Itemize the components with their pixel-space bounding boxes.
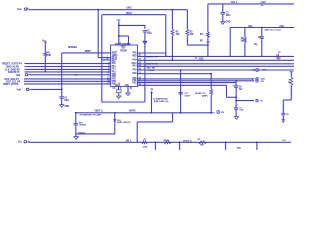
svg-text:R8 1K: R8 1K: [164, 140, 170, 142]
connector J3 x=151.5: [150, 89, 153, 112]
resistor R1 x=45.3: [44, 43, 47, 72]
label above top-right wire: [231, 0, 266, 4]
wire R6 down: [210, 95, 212, 113]
connector pin y=78.8: [253, 78, 266, 81]
resistor R7 inline: [142, 141, 148, 144]
svg-text:10K: 10K: [176, 34, 180, 36]
capacitor C8 battery: [74, 124, 79, 125]
svg-text:NRST: NRST: [85, 50, 92, 53]
junction (236.1,100.6): [235, 100, 237, 102]
wire net y=27.5: [230, 27, 294, 29]
svg-text:Vdd: Vdd: [17, 88, 22, 91]
svg-text:SW_1: SW_1: [126, 141, 133, 143]
svg-text:10K: 10K: [47, 55, 51, 57]
svg-text:SENSE1: SENSE1: [68, 45, 78, 49]
svg-text:(DNP, 100R, 1%): (DNP, 100R, 1%): [154, 101, 169, 103]
wire vertical x=98.2: [98, 10, 110, 58]
pin numbers U1 right: [138, 55, 141, 86]
junction (211.2,112.8): [210, 112, 212, 114]
label C6: [239, 86, 243, 90]
resistor R4 chain x=207.9: [207, 4, 210, 57]
label R2: [176, 31, 180, 36]
wire C6 to junctions: [235, 87, 237, 107]
label above wire y=27.5: [248, 25, 285, 28]
svg-text:VBAT: VBAT: [126, 12, 133, 15]
wire x=118.8 down: [118, 22, 120, 37]
wire bus y=63.6: [25, 63, 111, 65]
net label RESET_OUT: [2, 62, 22, 66]
junction (261.8,27.5): [261, 27, 263, 29]
power bar x=291.3: [289, 71, 293, 73]
svg-text:TSSOP: TSSOP: [120, 51, 128, 53]
junction (236.1,80.8): [235, 80, 237, 82]
net label SWDIO: [6, 64, 19, 68]
wire U1 bottom pin x=128: [128, 87, 133, 93]
svg-text:VO: VO: [260, 101, 263, 103]
junction (179.6,142.3): [179, 141, 181, 143]
connector pin y=100.7: [256, 99, 264, 102]
label near bottom wire end: [282, 140, 286, 142]
wire below C9: [282, 115, 284, 120]
power flag GND-B y=89.4: [17, 88, 31, 91]
wire row y=66.3: [137, 65, 294, 67]
capacitor C7: [234, 108, 245, 112]
svg-text:(DNP): (DNP): [202, 96, 208, 98]
wire box bottom y=133.9: [76, 133, 115, 135]
ground bottom-left: [74, 134, 79, 139]
label U1 sub: [121, 47, 127, 49]
label net above wire y=9.7: [126, 7, 132, 10]
wire x=61.7 down: [61, 53, 63, 97]
wire bus y=83.9: [24, 83, 111, 85]
wire drop x=225.6: [225, 141, 227, 150]
wire y=25.4 branch: [118, 25, 145, 27]
svg-text:(DNP, close to U1): (DNP, close to U1): [265, 29, 281, 32]
wire x=236.1 down: [235, 81, 237, 86]
label C1: [147, 30, 152, 35]
svg-text:100n: 100n: [226, 15, 231, 17]
red marker U1 bottom: [118, 83, 121, 85]
label below top-right wire: [261, 5, 265, 7]
wire net top-right y=3.9: [208, 3, 294, 5]
label R8: [164, 140, 170, 142]
wire U1 pin to x=61.7: [62, 52, 111, 54]
svg-text:100n: 100n: [147, 33, 152, 35]
wire flag line y=74.8: [29, 74, 111, 76]
wire bus y=66.5: [25, 66, 111, 68]
wire bus y=69.4: [25, 68, 111, 70]
wire bus y=78.9: [24, 78, 111, 80]
label above wire y=112.8: [95, 109, 137, 112]
ground stub on x=144.9: [143, 41, 147, 44]
wire row y=56.4: [138, 55, 295, 57]
label rows right of U1: [146, 55, 158, 72]
junction at (172.4,9.7): [172, 9, 174, 11]
junction (114.9,112.8): [114, 112, 116, 114]
label C2: [226, 12, 231, 17]
junction (151.3,112.8): [150, 112, 152, 114]
net label SCL: [6, 79, 21, 83]
junction (236.1,97.3): [235, 96, 237, 98]
wire stub to U1 pin 8: [102, 59, 111, 61]
wire y=45.1 join: [187, 44, 208, 46]
wire vertical x=101.8 (left edge): [101, 15, 103, 102]
label U1 sub2: [120, 51, 128, 53]
label below bottom wire: [237, 148, 242, 150]
pin names U1 right inside: [131, 51, 137, 84]
label VSS row: [115, 84, 130, 87]
svg-text:XTAL: XTAL: [279, 25, 285, 28]
label J3: [153, 98, 169, 102]
capacitor C10 marks: [113, 120, 116, 121]
svg-text:VSSA: VSSA: [115, 84, 121, 87]
net label SWCLK: [5, 67, 21, 71]
ground under pin 15: [126, 93, 130, 96]
capacitor C5 inline: [276, 52, 281, 61]
pin numbers U1 left: [107, 61, 110, 84]
wire U1 top pin x=118.8: [118, 36, 120, 45]
svg-text:+3V3: +3V3: [260, 0, 266, 4]
power flag VCC2 x=45.3: [42, 39, 47, 43]
wire row y=60.3: [137, 59, 294, 61]
svg-text:DRDY_INT P5: DRDY_INT P5: [3, 82, 19, 86]
wire corner x=165.8 down: [165, 15, 167, 58]
junction (61.7,89.4): [61, 89, 63, 91]
svg-text:Vcc: Vcc: [17, 7, 22, 11]
label R7: [143, 139, 148, 148]
connector pin right end: [211, 111, 224, 114]
label R1: [47, 52, 51, 57]
label U1 ref below: [113, 88, 117, 90]
capacitor C4 x=61.7: [60, 97, 64, 98]
svg-text:CR2032: CR2032: [79, 125, 87, 127]
svg-text:+3V3: +3V3: [126, 7, 132, 10]
wire drop x=155.2: [154, 142, 156, 150]
resistor R8 inline: [164, 141, 171, 144]
pin number 7: [107, 56, 109, 58]
label on bottom wire: [183, 140, 192, 143]
label C4: [64, 96, 69, 102]
wire to ground x=236.1: [235, 109, 237, 116]
wire drop x=256.9: [256, 141, 258, 150]
label R9: [198, 139, 205, 146]
wire pad to ground: [118, 93, 120, 96]
wire box right x=114.8: [114, 113, 116, 134]
connector J2 pin y=70: [253, 69, 267, 72]
wire bottom edge y=102.0: [102, 101, 145, 103]
svg-text:GND: GND: [64, 106, 69, 108]
pin names U1 left inside: [112, 53, 118, 86]
power flag bottom VCC: [18, 140, 29, 143]
capacitor C3 x=261.8: [260, 28, 264, 58]
wire net VCC y=9.7: [29, 9, 188, 11]
junction (155.2,142.3): [155, 141, 157, 143]
wire row y=63.8: [137, 63, 294, 65]
power flag VCC (top-left): [17, 7, 28, 11]
svg-text:USART1_TX: USART1_TX: [146, 55, 158, 58]
capacitor C2 chain x=222.8: [221, 4, 225, 20]
wire row y=78.9 right: [137, 78, 254, 80]
wire x=144.9 cap down: [144, 25, 146, 102]
wire below C4: [61, 98, 63, 104]
label C10: [117, 120, 131, 124]
ground below U1: [117, 96, 121, 99]
label NRST above: [85, 50, 92, 53]
svg-text:3V3_F: 3V3_F: [231, 1, 238, 4]
junction (180.6,112.8): [180, 112, 182, 114]
wire jog to U1 top pin: [118, 35, 129, 45]
capacitor C9: [281, 113, 289, 115]
svg-text:10K: 10K: [190, 34, 194, 36]
label net above wire y=14.7: [126, 12, 133, 15]
capacitor C11: [178, 93, 190, 98]
ground x=236.1: [234, 117, 238, 120]
label above bottom wire: [126, 141, 133, 143]
label below wire y=27.5: [265, 29, 281, 32]
wire U1 bottom pin x=118.5: [119, 87, 123, 91]
net label BOOT: [8, 70, 20, 74]
label R5: [240, 38, 244, 43]
label inside box: [80, 114, 102, 117]
label R6: [195, 92, 208, 97]
wire vertical x=180.6: [180, 69, 182, 113]
label C3: [254, 37, 261, 46]
wire bus y=81.3: [24, 80, 111, 82]
capacitor C1: [143, 31, 147, 32]
svg-text:OSC: OSC: [248, 26, 253, 28]
wire corner x=230.2: [229, 28, 231, 58]
wire flag line y=89.4: [31, 88, 62, 90]
ground below C2: [221, 20, 231, 24]
power flag GND-A y=74.8: [16, 74, 29, 77]
net stub on row r1: [195, 56, 204, 60]
svg-text:ADC_IN4: ADC_IN4: [147, 67, 156, 70]
junction (75.8,112.8): [75, 112, 77, 114]
svg-text:PWM1: PWM1: [148, 70, 155, 72]
svg-text:MCU1 STM32F0: MCU1 STM32F0: [115, 44, 132, 46]
resistor R10: [290, 72, 293, 100]
label R4: [200, 33, 204, 43]
wire corner x=226.5: [227, 85, 237, 97]
red marker x=236.5: [237, 104, 239, 106]
wire net B y=14.7: [102, 14, 166, 16]
wire jog right column: [283, 100, 291, 113]
junction at (98.2,9.7): [97, 9, 99, 11]
svg-text:100nF: 100nF: [184, 95, 190, 97]
wire row y=80.8 right: [137, 80, 254, 82]
red label DNP R4: [206, 42, 211, 44]
wire net y=112.8: [76, 112, 211, 114]
svg-text:USART1_RX: USART1_RX: [146, 63, 158, 66]
svg-text:GND: GND: [226, 22, 231, 24]
label C8: [79, 122, 87, 126]
svg-text:VDD: VDD: [132, 56, 137, 58]
wire row y=85.3: [138, 84, 227, 86]
net label SDA: [5, 77, 20, 81]
svg-text:VBAT3: VBAT3: [129, 109, 136, 112]
svg-text:P.S. BATTERY HOLDER: P.S. BATTERY HOLDER: [80, 114, 102, 117]
thermal pad symbol below U1: [116, 90, 121, 93]
net label INT: [3, 82, 19, 86]
ground arrow right: [281, 120, 285, 123]
pin number 1 top: [120, 43, 129, 46]
junction (45.3,71.9): [45, 71, 47, 73]
svg-text:Vdd: Vdd: [16, 74, 21, 77]
label box bottom: [78, 132, 86, 134]
wire drop x=179.6: [179, 142, 181, 150]
svg-text:MODE_A: MODE_A: [183, 140, 192, 143]
resistor R9 inline: [199, 141, 207, 144]
resistor R6: [210, 89, 213, 95]
capacitor C6 polarized: [232, 85, 238, 88]
red marker inside U1: [122, 47, 125, 50]
wire branch y=100.6: [236, 100, 254, 102]
svg-text:VBAT_S: VBAT_S: [95, 109, 104, 112]
resistor R2 on x=172.4: [171, 10, 174, 61]
label R3: [190, 31, 194, 36]
svg-text:100R: 100R: [143, 146, 148, 148]
wire row y=82.6 right: [137, 82, 236, 84]
svg-text:1M: 1M: [240, 40, 243, 42]
wire U-loop: [137, 113, 172, 143]
ground below C4: [60, 105, 70, 108]
label SENSOR: [68, 45, 78, 49]
svg-text:CR2032: CR2032: [78, 132, 86, 134]
label R10: [288, 79, 291, 84]
svg-text:(DNP, 100R) 1%: (DNP, 100R) 1%: [117, 122, 131, 124]
wire row y=53.0: [138, 52, 166, 54]
wire net bottom y=142.3: [29, 141, 291, 143]
wire bus y=71.9: [25, 71, 111, 73]
connector pin y=80.9: [256, 80, 266, 84]
label U1 title: [115, 44, 132, 46]
resistor R5 x=244.9: [244, 28, 247, 58]
wire row y=70.0: [137, 69, 294, 71]
wire row y=73.7: [137, 73, 211, 75]
wire box-left x=75.8: [75, 113, 77, 123]
resistor R3 on x=187.4: [186, 10, 189, 45]
svg-text:100n: 100n: [64, 100, 69, 102]
junction (75.8,74.8): [75, 74, 77, 76]
power flag VDD x=118.8: [116, 18, 120, 21]
ic U1 body: [111, 45, 138, 87]
wire x=211.2: [210, 73, 212, 89]
wire below C8: [75, 125, 77, 134]
